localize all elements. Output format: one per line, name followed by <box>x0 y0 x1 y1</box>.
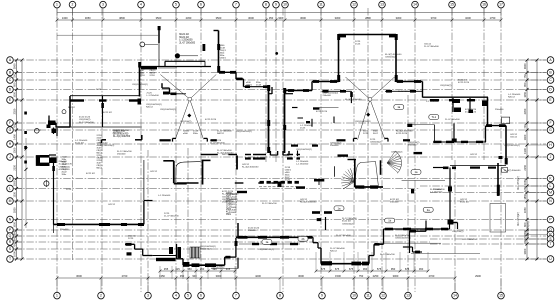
wall gable west vertical x=139.5 <box>138 62 141 97</box>
wall south strip to shaft <box>152 256 176 262</box>
svg-text:J: J <box>9 155 11 159</box>
text note tower interior <box>385 54 402 59</box>
stair ramp curve <box>176 162 201 183</box>
svg-text:M: M <box>9 199 12 203</box>
svg-text:2L-07 300x500: 2L-07 300x500 <box>179 42 196 45</box>
corridor wall y=183 <box>177 182 275 184</box>
text note sw inner <box>336 235 351 237</box>
left axis bubble M <box>7 198 14 205</box>
stair shaft bottom wall <box>174 183 187 185</box>
bottom secondary dimension right <box>315 252 430 272</box>
svg-text:950: 950 <box>13 82 17 87</box>
horizontal grid axis line y=188.5 <box>14 188 420 190</box>
text note room 1 <box>68 107 76 109</box>
top axis bubble 11 <box>318 1 325 8</box>
horizontal grid axis line y=144 <box>14 143 546 145</box>
svg-text:TL1: TL1 <box>432 115 437 119</box>
vertical grid axis line x=276 <box>275 8 277 162</box>
horizontal grid axis line y=178.5 <box>14 178 546 180</box>
svg-text:C8@100/200(2): C8@100/200(2) <box>236 131 252 133</box>
wall right-unit south lowest y=263.7 <box>321 261 369 265</box>
dense note streak left <box>62 157 69 177</box>
svg-text:3500: 3500 <box>156 16 162 20</box>
interior corner L at (138,140) <box>135 135 142 140</box>
right shaft east wall <box>380 160 382 175</box>
wall right-unit y=81.5 east <box>396 80 423 83</box>
text note left low <box>164 213 179 218</box>
wall right-unit south y=229 <box>384 228 450 231</box>
svg-text:2800: 2800 <box>365 16 371 20</box>
interior wall x=409.5 <box>409 231 411 253</box>
badge label 2a-4 <box>423 207 433 212</box>
svg-text:455: 455 <box>164 267 169 271</box>
right dimension line outer <box>536 59 539 261</box>
NE small table rect <box>502 117 510 123</box>
svg-text:415: 415 <box>175 267 180 271</box>
interior wall x=237 upper <box>236 156 238 170</box>
svg-text:2C25: 2C25 <box>355 44 361 46</box>
svg-text:C8@200(2): C8@200(2) <box>200 249 212 251</box>
top axis bubble 17 <box>498 1 505 8</box>
svg-text:3000: 3000 <box>298 274 304 278</box>
right X ray LL <box>358 99 371 140</box>
right axis bubble A <box>547 57 554 64</box>
gable dense text block <box>140 68 157 78</box>
svg-text:2L-07 300x500: 2L-07 300x500 <box>164 216 179 218</box>
svg-text:G2C12: G2C12 <box>470 154 478 156</box>
small box with X <box>502 168 508 173</box>
text note shaft right <box>390 199 400 204</box>
left opening wall row y=140 <box>160 139 217 141</box>
badge label 1a-7 <box>411 170 421 175</box>
svg-text:4C22:2C20: 4C22:2C20 <box>396 133 408 135</box>
svg-text:14: 14 <box>413 3 417 7</box>
wall left-unit vertical x=70 <box>69 96 71 128</box>
svg-text:4: 4 <box>175 294 177 298</box>
svg-text:1750: 1750 <box>490 16 496 20</box>
wall right-unit step x=312 <box>311 82 313 91</box>
svg-text:250x600: 250x600 <box>433 189 442 191</box>
stair shaft left wall <box>163 161 174 183</box>
wall y=79 segment <box>236 78 244 81</box>
wall stub x=449.5 <box>449 223 451 230</box>
south column A <box>169 247 173 254</box>
interior wall y=127 <box>70 126 142 128</box>
svg-text:2: 2 <box>72 3 74 7</box>
horizontal grid axis line y=219.5 <box>14 219 546 221</box>
svg-text:3000: 3000 <box>248 16 254 20</box>
left axis bubble T <box>7 256 14 263</box>
svg-text:250x600: 250x600 <box>330 145 339 147</box>
svg-text:2C18: 2C18 <box>256 84 262 86</box>
svg-text:2C25: 2C25 <box>285 180 291 182</box>
svg-text:2350: 2350 <box>13 108 17 114</box>
svg-text:3: 3 <box>102 3 104 7</box>
left X crossing circle <box>188 97 192 101</box>
text note corridor top <box>222 154 230 156</box>
wall left-unit north main y=96 <box>70 95 140 97</box>
svg-text:750: 750 <box>13 74 17 79</box>
wall lower-east x=450 <box>448 168 454 225</box>
svg-text:1850: 1850 <box>523 193 527 199</box>
interior column x=413 <box>411 189 414 193</box>
svg-text:5: 5 <box>187 294 189 298</box>
wall east y=125.6 <box>486 124 506 127</box>
horizontal grid axis line y=201 <box>14 200 546 202</box>
text note east room 3 <box>495 109 504 111</box>
svg-text:1000: 1000 <box>13 251 17 257</box>
svg-text:150: 150 <box>187 267 192 271</box>
text dim note left south <box>60 229 69 231</box>
stair fan upper-right <box>387 151 402 173</box>
svg-text:950: 950 <box>391 267 396 271</box>
left axis bubble R <box>7 239 14 246</box>
west wall bottom tick <box>53 224 55 233</box>
svg-text:L-1 250x500: L-1 250x500 <box>426 101 439 103</box>
text note mid strip b <box>296 149 312 151</box>
terrace line y=243.2 <box>377 242 441 244</box>
svg-text:C8@100/200(2): C8@100/200(2) <box>395 238 411 240</box>
partition x=162 gable <box>158 68 177 95</box>
wall y=86.7 segment <box>244 85 269 88</box>
wall expansion joint east x=284.5 <box>283 88 286 153</box>
svg-text:360: 360 <box>363 267 368 271</box>
left axis bubble C <box>7 77 14 84</box>
svg-text:11: 11 <box>319 3 323 7</box>
horizontal grid axis line y=123 <box>14 122 546 124</box>
stair shaft right wall <box>203 160 211 185</box>
rotated note east a <box>517 176 520 190</box>
text note east row <box>470 154 478 156</box>
NE thin line y=124.6 <box>407 124 434 127</box>
left axis bubble Q <box>7 233 14 240</box>
svg-text:3800: 3800 <box>119 16 125 20</box>
horizontal grid axis line y=259 <box>14 258 546 260</box>
svg-text:9: 9 <box>275 3 277 7</box>
text note room 2 <box>103 112 113 114</box>
column row under north wall <box>71 99 139 101</box>
svg-text:15: 15 <box>450 3 454 7</box>
horizontal grid axis line y=249 <box>14 248 310 250</box>
right axis bubble B <box>547 69 554 76</box>
svg-text:15: 15 <box>499 294 503 298</box>
svg-text:900: 900 <box>192 274 197 278</box>
horizontal grid axis line y=186 <box>420 185 546 187</box>
vertical grid axis line x=415 <box>414 8 416 292</box>
svg-text:C8@100/200(2): C8@100/200(2) <box>258 249 274 251</box>
horizontal grid axis line y=72.5 <box>14 72 546 74</box>
wall lower-east x=457.5 stub <box>457 223 459 230</box>
svg-text:2700: 2700 <box>122 274 128 278</box>
svg-text:4C22:2C20: 4C22:2C20 <box>458 82 470 84</box>
NE partition x=470 <box>469 98 474 113</box>
svg-text:3300: 3300 <box>335 16 341 20</box>
vertical grid axis line x=455 <box>454 160 456 292</box>
text note middle low <box>262 203 277 205</box>
svg-text:415: 415 <box>226 267 231 271</box>
svg-text:950: 950 <box>523 82 527 87</box>
vertical grid axis line x=484 <box>483 8 485 160</box>
svg-text:2C25: 2C25 <box>363 133 369 135</box>
stair fan lower-left <box>341 168 355 189</box>
vertical grid axis line x=452 <box>451 8 453 160</box>
svg-text:2C25: 2C25 <box>128 238 134 240</box>
south wall x=238 lower <box>237 258 239 269</box>
interior beam y=244 middle <box>239 243 300 245</box>
svg-text:6: 6 <box>200 294 202 298</box>
svg-text:700: 700 <box>13 243 17 248</box>
right axis bubble K <box>547 175 554 182</box>
svg-text:N4C12: N4C12 <box>146 107 154 109</box>
svg-text:900: 900 <box>278 16 283 20</box>
svg-text:250x600: 250x600 <box>323 95 332 97</box>
bottom axis bubble 15 <box>498 292 505 299</box>
text note corridor right <box>296 161 309 166</box>
svg-text:4200: 4200 <box>255 274 261 278</box>
text note south east <box>452 231 464 233</box>
NE partition x=453 <box>452 98 461 112</box>
left dimension line outer <box>13 59 19 261</box>
bottom axis bubble 10 <box>351 292 358 299</box>
svg-text:3000: 3000 <box>393 274 399 278</box>
joint east top stub <box>285 93 294 95</box>
svg-text:2900: 2900 <box>475 274 481 278</box>
text note lower east 2 <box>460 199 470 204</box>
svg-text:12: 12 <box>352 3 356 7</box>
text note corridor upper <box>242 164 259 169</box>
svg-text:C8@1: C8@1 <box>220 57 227 59</box>
wall left-unit south y=224.4 <box>54 223 145 226</box>
svg-text:1050: 1050 <box>13 91 17 97</box>
svg-text:2C25: 2C25 <box>300 128 306 130</box>
text note 1L-03 <box>146 104 162 109</box>
text note right unit west <box>300 125 313 130</box>
text note above north wall <box>96 89 102 91</box>
small steps SE of right unit <box>403 247 422 253</box>
svg-text:3900: 3900 <box>13 63 17 69</box>
left bubble stems <box>13 60 22 259</box>
partition x=102.5 upper <box>101 96 104 127</box>
svg-text:KL-3(2) 300x550: KL-3(2) 300x550 <box>345 99 362 101</box>
badge label 1b-3 <box>385 218 395 223</box>
right opening corner west <box>354 138 358 141</box>
svg-text:3L-12 300x700: 3L-12 300x700 <box>79 122 94 124</box>
wall south step x=183 <box>182 259 184 265</box>
svg-text:C8@200(2): C8@200(2) <box>342 223 354 225</box>
bottom dimension line <box>56 274 482 279</box>
svg-text:Q: Q <box>9 234 12 238</box>
svg-text:1400: 1400 <box>523 134 527 140</box>
bottom secondary dimension left <box>159 266 237 279</box>
note near fan2 <box>391 152 403 154</box>
wall middle step x=313 <box>313 237 318 248</box>
text note left X area <box>180 121 192 123</box>
right opening wall row y=140 <box>337 139 411 141</box>
wall step x=236 <box>235 72 237 79</box>
svg-text:Fb=-47.5(m): Fb=-47.5(m) <box>517 212 520 226</box>
svg-text:2C25: 2C25 <box>222 202 228 204</box>
right opening corner east <box>385 138 389 141</box>
text note sw steps <box>330 248 345 253</box>
horizontal grid axis line y=157 <box>14 156 546 158</box>
stair hatch block south <box>190 247 200 258</box>
svg-text:C8@100/200(2): C8@100/200(2) <box>296 149 312 151</box>
joint west top L <box>269 87 273 94</box>
partition y=88 stub <box>170 93 187 96</box>
text note south middle strip <box>258 249 274 251</box>
vertical grid axis line x=188 <box>187 148 189 292</box>
wall left-unit NW step upper <box>48 116 56 126</box>
horizontal grid axis line y=230 <box>14 229 546 231</box>
horizontal grid axis line y=242 <box>14 241 430 243</box>
in-plan circle marker A <box>34 129 41 134</box>
svg-text:C8@1: C8@1 <box>246 84 253 86</box>
horizontal grid axis line y=236 <box>14 235 546 237</box>
text note right X area <box>370 139 382 144</box>
left axis bubble D <box>7 86 14 93</box>
text note gable small <box>132 84 148 86</box>
svg-text:1: 1 <box>56 294 58 298</box>
wall middle south y=237.3 <box>236 236 313 239</box>
interior y=91.3 segments <box>322 90 423 93</box>
walls y=212.5 right unit <box>312 211 332 214</box>
svg-text:3600: 3600 <box>76 274 82 278</box>
vertical grid axis line x=57 <box>56 8 58 292</box>
right axis bubble L <box>547 183 554 190</box>
svg-text:10: 10 <box>283 3 287 7</box>
horizontal grid axis line y=192.5 <box>430 192 546 194</box>
vertical grid axis line x=283 <box>282 8 284 292</box>
svg-text:4C22:2C20: 4C22:2C20 <box>465 112 477 114</box>
bottom axis bubble 7 <box>233 292 240 299</box>
svg-text:3L07: 3L07 <box>373 133 379 135</box>
interior wall x=312 stub <box>311 119 313 127</box>
top axis bubble 3 <box>100 1 107 8</box>
upper border line y=35.2 <box>57 34 160 36</box>
dense note streak middle <box>285 167 292 182</box>
text note left entrance A <box>59 161 74 171</box>
vertical grid axis line x=72.5 <box>72 8 74 260</box>
svg-text:675: 675 <box>405 267 410 271</box>
svg-text:10: 10 <box>352 294 356 298</box>
svg-text:2L-07 300x500: 2L-07 300x500 <box>210 143 225 145</box>
corridor dashes y=186.8 <box>259 186 300 188</box>
svg-text:350x: 350x <box>226 214 232 216</box>
note 3L-07 dense <box>113 131 131 139</box>
svg-text:G2C12: G2C12 <box>108 204 116 206</box>
wall gable east vertical x=218.5 <box>214 31 221 73</box>
top axis bubble 16 <box>481 1 488 8</box>
left axis bubble A <box>7 57 14 64</box>
wall south step porch <box>125 224 135 249</box>
text note right unit east <box>408 142 420 147</box>
horizontal grid axis line y=80 <box>14 79 546 81</box>
left X ray UL <box>160 75 189 100</box>
svg-text:N4C12: N4C12 <box>217 133 225 135</box>
svg-text:7: 7 <box>235 3 237 7</box>
svg-text:250x600: 250x600 <box>248 230 257 232</box>
horizontal grid axis line y=239 <box>430 238 546 240</box>
svg-text:1000: 1000 <box>523 238 527 244</box>
vertical grid axis line x=236 <box>235 8 237 292</box>
left axis bubble N <box>7 216 14 223</box>
top axis bubble 1 <box>54 1 61 8</box>
svg-text:N4C12: N4C12 <box>508 97 516 99</box>
right axis bubble T <box>547 241 554 248</box>
svg-text:2150: 2150 <box>13 164 17 170</box>
corridor heavy dashed wall y=182.3 <box>260 181 299 187</box>
svg-text:C8@200(2): C8@200(2) <box>452 231 464 233</box>
wall south step x=143.9 <box>143 201 145 225</box>
svg-text:C8@200(2): C8@200(2) <box>440 85 452 87</box>
badge label 2b-6 <box>298 236 308 241</box>
svg-text:1050: 1050 <box>13 221 17 227</box>
svg-text:F: F <box>549 121 551 125</box>
gable column x=203 <box>203 44 206 51</box>
left X ray UR <box>190 75 217 100</box>
in-plan circle marker C <box>175 53 198 58</box>
left axis bubble E <box>7 97 14 104</box>
partition x=351.4 <box>350 91 353 103</box>
svg-text:700: 700 <box>523 124 527 129</box>
wall south step x=224.7 <box>224 257 226 265</box>
right axis bubble E <box>547 97 554 104</box>
vertical grid axis line x=266 <box>265 8 267 162</box>
left axis bubble P <box>7 227 14 234</box>
NE partition x=454 lower <box>452 123 457 142</box>
text note left room low <box>108 204 116 206</box>
antenna wall x=159 <box>158 26 161 66</box>
left axis bubble F <box>7 120 14 127</box>
svg-text:360: 360 <box>419 267 424 271</box>
svg-text:3050: 3050 <box>85 16 91 20</box>
svg-text:250x600: 250x600 <box>390 202 399 204</box>
wall south y=258.8 <box>177 258 184 260</box>
svg-text:3900: 3900 <box>523 248 527 254</box>
right X ray LR <box>370 99 385 140</box>
svg-text:1050: 1050 <box>13 180 17 186</box>
svg-text:C8@100/200(2): C8@100/200(2) <box>355 121 371 123</box>
note small under corner <box>99 143 115 148</box>
text note left room b <box>86 173 96 175</box>
svg-text:1850: 1850 <box>13 207 17 213</box>
svg-text:700: 700 <box>13 124 17 129</box>
right axis bubble J <box>547 154 554 161</box>
horizontal grid axis line y=244 <box>430 243 546 245</box>
svg-text:12: 12 <box>381 294 385 298</box>
wall lower-east y=222.5 <box>450 222 458 224</box>
interior wall x=144 low <box>143 160 145 200</box>
text note far east top <box>508 94 521 99</box>
top dimension line <box>56 16 503 21</box>
terrace line y=253.6 <box>411 253 480 255</box>
text note right unit NW <box>323 93 339 98</box>
svg-text:1050: 1050 <box>523 179 527 185</box>
wall south lowest y=265.2 <box>183 262 225 267</box>
wall right-unit y=255.5 <box>369 255 374 257</box>
svg-text:L-1 250x500: L-1 250x500 <box>296 164 309 166</box>
svg-text:N4C2: N4C2 <box>97 168 103 170</box>
top axis bubble 14 <box>412 1 419 8</box>
svg-text:6C22 4/2: 6C22 4/2 <box>460 202 470 204</box>
south column B <box>178 247 182 258</box>
wall right-unit y=81.5 west <box>312 80 339 83</box>
svg-text:Fb=-47.5(m): Fb=-47.5(m) <box>526 221 530 238</box>
interior wall y=231.2 <box>409 230 426 233</box>
svg-text:1050: 1050 <box>523 207 527 213</box>
svg-text:13: 13 <box>380 3 384 7</box>
text note south mid <box>380 254 395 256</box>
